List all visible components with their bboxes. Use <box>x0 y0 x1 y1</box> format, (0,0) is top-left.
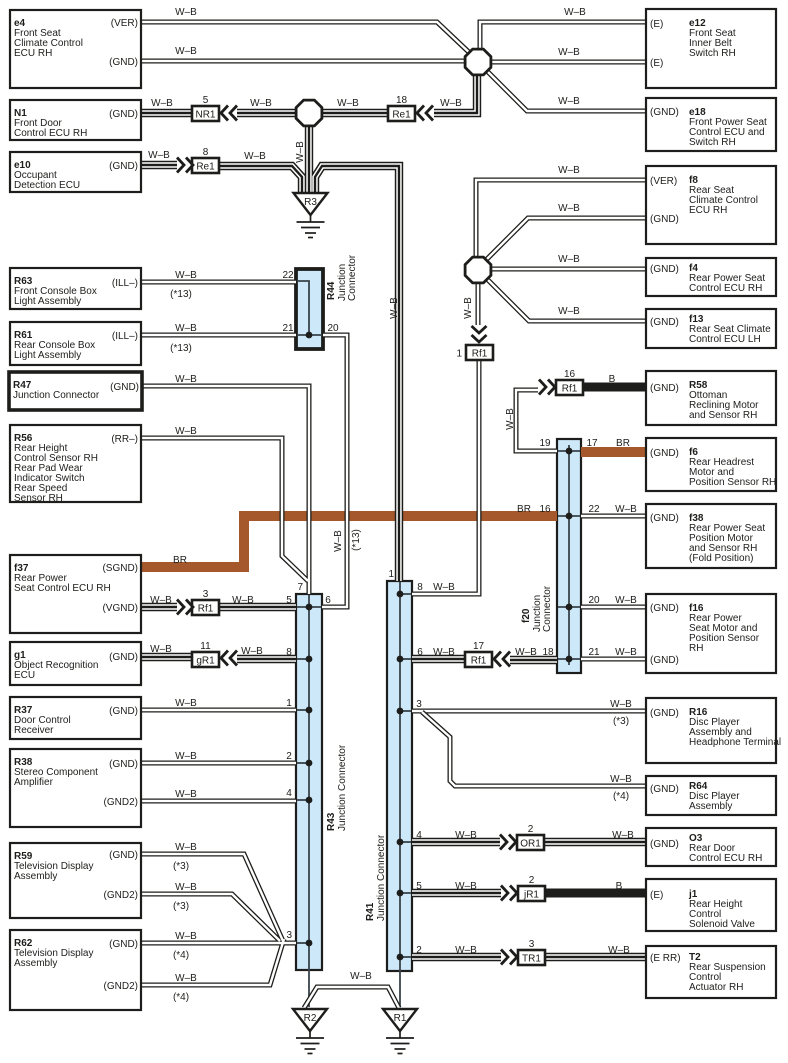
svg-text:(ILL–): (ILL–) <box>112 331 138 342</box>
svg-text:(GND): (GND) <box>110 382 139 393</box>
wire W-B g1 GND to gR1 <box>141 653 192 661</box>
svg-text:(*13): (*13) <box>170 289 192 300</box>
arrows into TR1 <box>501 950 517 965</box>
svg-text:W–B: W–B <box>150 644 172 655</box>
arrows into OR1 <box>500 835 516 850</box>
wire BR f20 pin 17 to f6 <box>581 447 646 457</box>
svg-text:5: 5 <box>416 881 422 892</box>
wire W-B f37 VGND to Rf1(3) <box>141 603 177 611</box>
svg-text:R44: R44 <box>326 281 337 300</box>
wire W-B octagon B to f13 GND <box>481 273 646 321</box>
ground R1 <box>383 1009 417 1054</box>
svg-text:W–B: W–B <box>175 270 197 281</box>
svg-text:B: B <box>609 374 616 385</box>
svg-text:W–B: W–B <box>175 882 197 893</box>
wire W-B octagon A to e12 upper E <box>480 22 646 55</box>
svg-text:Receiver: Receiver <box>14 725 54 736</box>
node R41 pin 6 junction <box>397 656 404 663</box>
wire W-B octagon C / Re1(8) / R41 pin 1 to ground R3 <box>219 110 399 581</box>
R44 internal bus <box>297 281 322 335</box>
wire W-B R41 pin 2 to TR1 <box>412 953 501 961</box>
svg-text:f20: f20 <box>521 608 532 623</box>
svg-text:Headphone Terminal: Headphone Terminal <box>689 737 781 748</box>
svg-text:(*13): (*13) <box>170 343 192 354</box>
svg-text:W–B: W–B <box>610 774 632 785</box>
svg-text:Rf1: Rf1 <box>472 349 488 360</box>
shield box gR1 pin 11 <box>192 641 219 667</box>
motor f16 Rear Power Seat Motor and Position Sensor RH <box>646 594 776 673</box>
svg-text:3: 3 <box>286 930 292 941</box>
svg-text:(VER): (VER) <box>111 18 138 29</box>
svg-text:(GND2): (GND2) <box>104 797 138 808</box>
wire W-B octagon A to e18 GND <box>480 64 646 111</box>
svg-text:W–B: W–B <box>175 323 197 334</box>
node R43 pin 3 junction <box>306 940 313 947</box>
wire W-B R41 pin 3 to R16 GND <box>412 709 646 714</box>
svg-text:(E): (E) <box>650 19 663 30</box>
svg-text:(GND): (GND) <box>650 655 679 666</box>
arrows into NR1 <box>221 106 237 121</box>
svg-text:(GND): (GND) <box>650 214 679 225</box>
svg-text:2: 2 <box>416 945 422 956</box>
shield box Re1 pin 18 <box>388 95 415 121</box>
svg-text:W–B: W–B <box>148 150 170 161</box>
wire W-B f20 pin 22 to f38 GND <box>581 514 646 519</box>
svg-text:(GND): (GND) <box>650 513 679 524</box>
label R43 junction connector <box>326 744 348 831</box>
label f20 junction connector <box>521 585 553 632</box>
label R44 junction connector <box>326 254 358 301</box>
svg-text:W–B: W–B <box>175 751 197 762</box>
ECU e18 Front Power Seat Control ECU and Switch RH <box>646 98 776 151</box>
svg-text:W–B: W–B <box>151 98 173 109</box>
svg-text:(GND): (GND) <box>650 317 679 328</box>
svg-text:4: 4 <box>286 788 292 799</box>
wire W-B R41 pin 5 to jR1 <box>412 889 501 897</box>
ground R3 <box>294 193 328 238</box>
svg-text:20: 20 <box>588 595 600 606</box>
svg-text:(*4): (*4) <box>173 992 189 1003</box>
component R38 Stereo Component Amplifier <box>10 749 141 827</box>
svg-text:(GND): (GND) <box>650 708 679 719</box>
svg-text:ECU: ECU <box>14 670 35 681</box>
motor R58 Ottoman Reclining Motor and Sensor RH <box>646 371 776 425</box>
svg-text:(GND2): (GND2) <box>104 890 138 901</box>
svg-text:(E): (E) <box>650 890 663 901</box>
motor f38 Rear Power Seat Position Motor and Sensor RH <box>646 504 776 568</box>
svg-text:3: 3 <box>203 589 209 600</box>
svg-text:Position Sensor RH: Position Sensor RH <box>689 477 776 488</box>
ECU g1 Object Recognition ECU <box>10 642 141 685</box>
switch e12 Front Seat Inner Belt Switch RH <box>646 9 776 88</box>
svg-text:Re1: Re1 <box>196 162 215 173</box>
sensor R56 <box>10 425 141 504</box>
svg-text:ECU RH: ECU RH <box>689 205 727 216</box>
svg-text:6: 6 <box>325 595 331 606</box>
node f20 pin 16/22 junction <box>566 513 573 520</box>
svg-text:R3: R3 <box>304 197 317 208</box>
arrows into Rf1(16) <box>539 380 555 395</box>
svg-text:W–B: W–B <box>232 595 254 606</box>
node R43 pin 1 junction <box>306 707 313 714</box>
wire W-B TR1 to T2 E RR <box>545 953 646 961</box>
svg-text:Junction Connector: Junction Connector <box>337 744 348 831</box>
motor f6 Rear Headrest Motor and Position Sensor RH <box>646 438 776 491</box>
svg-text:Rf1: Rf1 <box>198 604 214 615</box>
component R64 Disc Player Assembly <box>646 776 776 815</box>
wire W-B OR1 to O3 GND <box>544 838 646 846</box>
arrows into Rf1(3) <box>177 600 193 615</box>
svg-text:R41: R41 <box>365 902 376 921</box>
wire W-B Rf1(3) to R43 pin 5 <box>219 603 296 611</box>
svg-text:20: 20 <box>327 323 339 334</box>
svg-text:W–B: W–B <box>615 504 637 515</box>
node R43 pin 5/6/7 junction <box>306 604 313 611</box>
node f20 pin 20 junction <box>566 604 573 611</box>
svg-text:W–B: W–B <box>558 254 580 265</box>
svg-text:BR: BR <box>173 555 187 566</box>
svg-text:18: 18 <box>396 95 408 106</box>
svg-text:22: 22 <box>588 504 600 515</box>
wire W-B R37 GND to R43 pin 1 <box>141 708 296 713</box>
svg-text:Rf1: Rf1 <box>471 656 487 667</box>
svg-text:(VER): (VER) <box>650 176 677 187</box>
shield box Rf1 pin 17 <box>465 641 492 667</box>
svg-text:Assembly: Assembly <box>689 801 732 812</box>
junction node octagon A <box>465 49 491 75</box>
wire W-B octagon C to Re1(18) <box>309 109 388 117</box>
wire W-B R44 pin 20 to R43 pin 6 <box>322 335 347 607</box>
svg-text:W–B: W–B <box>175 789 197 800</box>
svg-text:Switch RH: Switch RH <box>689 137 736 148</box>
wire W-B octagon B to f8 GND <box>481 218 646 265</box>
junction connector R43 <box>296 594 322 970</box>
ECU e4 Front Seat Climate Control ECU RH <box>10 10 141 88</box>
svg-text:Connector: Connector <box>347 254 358 301</box>
ECU O3 Rear Door Control ECU RH <box>646 828 776 866</box>
svg-text:(GND): (GND) <box>109 109 138 120</box>
svg-text:16: 16 <box>564 369 576 380</box>
svg-text:NR1: NR1 <box>195 110 215 121</box>
svg-text:17: 17 <box>473 641 485 652</box>
svg-text:TR1: TR1 <box>522 954 541 965</box>
svg-text:W–B: W–B <box>175 46 197 57</box>
svg-text:Junction Connector: Junction Connector <box>376 834 387 921</box>
svg-text:(GND): (GND) <box>650 448 679 459</box>
svg-text:Connector: Connector <box>542 585 553 632</box>
ECU e10 Occupant Detection ECU <box>10 152 141 192</box>
svg-text:2: 2 <box>529 875 535 886</box>
wires W-B R59/R62 to R43 pin 3 <box>141 854 296 985</box>
svg-text:1: 1 <box>456 349 462 360</box>
svg-text:21: 21 <box>588 647 600 658</box>
actuator T2 Rear Suspension Control Actuator RH <box>646 946 776 998</box>
svg-text:(*3): (*3) <box>173 901 189 912</box>
svg-text:W–B: W–B <box>175 7 197 18</box>
node R44 pin 21/20 junction <box>306 332 313 339</box>
svg-text:21: 21 <box>282 323 294 334</box>
junction connector R47 <box>9 372 142 410</box>
svg-text:W–B: W–B <box>463 297 474 319</box>
svg-text:R43: R43 <box>326 812 337 831</box>
svg-text:5: 5 <box>286 595 292 606</box>
wire W-B NR1 to octagon C <box>237 109 309 117</box>
svg-text:(GND): (GND) <box>109 161 138 172</box>
svg-text:(GND): (GND) <box>109 850 138 861</box>
svg-text:W–B: W–B <box>558 203 580 214</box>
R43 internal bus <box>297 595 321 1007</box>
wire W-B R61 ILL- to R44 pin 21 <box>141 333 296 338</box>
wire W-B e4 VER to junction octagon A <box>141 22 474 57</box>
svg-text:(*4): (*4) <box>173 950 189 961</box>
svg-text:(*13): (*13) <box>351 529 362 551</box>
wire W-B gR1 to R43 pin 8 <box>237 655 296 663</box>
svg-text:R2: R2 <box>304 1013 317 1024</box>
svg-text:(GND): (GND) <box>109 57 138 68</box>
svg-text:Control ECU RH: Control ECU RH <box>689 283 762 294</box>
wire W-B R63 ILL- to R44 pin 22 <box>141 280 296 285</box>
svg-text:Light Assembly: Light Assembly <box>14 350 81 361</box>
shield box TR1 pin 3 <box>518 939 545 965</box>
wire W-B N1 GND to NR1 <box>141 109 192 117</box>
junction connector R41 <box>387 581 412 971</box>
svg-text:(GND): (GND) <box>109 939 138 950</box>
svg-text:(Fold Position): (Fold Position) <box>689 553 753 564</box>
arrows into Rf1(1) <box>472 326 487 342</box>
svg-text:Control ECU RH: Control ECU RH <box>14 128 87 139</box>
wire W-B R38 GND to R43 pin 2 <box>141 761 296 766</box>
svg-text:1: 1 <box>388 569 394 580</box>
wire W-B e4 GND to junction octagon A <box>141 59 474 64</box>
svg-text:RH: RH <box>689 643 703 654</box>
svg-text:(*3): (*3) <box>173 861 189 872</box>
svg-text:W–B: W–B <box>564 7 586 18</box>
svg-text:W–B: W–B <box>455 830 477 841</box>
svg-text:W–B: W–B <box>440 98 462 109</box>
wire W-B Rf1(17) to f20 pin 18 <box>510 656 557 664</box>
node R43 pin 4 junction <box>306 797 313 804</box>
node R41 pin 2 junction <box>397 954 404 961</box>
ECU N1 Front Door Control ECU RH <box>10 100 141 140</box>
wire W-B f20 pin 19 to arrows at Rf1(16) <box>516 390 557 451</box>
svg-text:Rf1: Rf1 <box>562 384 578 395</box>
arrows into Re1(18) <box>417 106 433 121</box>
svg-text:W–B: W–B <box>250 98 272 109</box>
svg-text:W–B: W–B <box>175 426 197 437</box>
svg-text:(GND): (GND) <box>650 264 679 275</box>
svg-text:7: 7 <box>297 582 303 593</box>
svg-text:W–B: W–B <box>175 842 197 853</box>
svg-text:W–B: W–B <box>337 98 359 109</box>
wire B Rf1(16) to R58 <box>583 383 646 392</box>
svg-text:16: 16 <box>539 504 551 515</box>
svg-text:Switch RH: Switch RH <box>689 48 736 59</box>
svg-text:(*3): (*3) <box>613 716 629 727</box>
node f20 pin 18/21 junction <box>566 656 573 663</box>
svg-text:(GND): (GND) <box>650 784 679 795</box>
junction connector R44 <box>296 269 323 349</box>
ground R2 <box>293 1009 327 1054</box>
wire W-B R38 GND2 to R43 pin 4 <box>141 799 296 804</box>
wire BR f37 SGND to f20 pin 16 <box>141 516 557 567</box>
svg-text:W–B: W–B <box>505 408 516 430</box>
svg-text:Amplifier: Amplifier <box>14 777 54 788</box>
svg-text:Control ECU LH: Control ECU LH <box>689 334 761 345</box>
svg-text:and Sensor RH: and Sensor RH <box>689 410 757 421</box>
svg-text:W–B: W–B <box>558 165 580 176</box>
wire W-B e10 GND to Re1(8) <box>141 161 177 169</box>
wire W-B ground bus R2 to R1 <box>304 987 399 1008</box>
arrows into gR1 <box>221 651 237 666</box>
svg-text:W–B: W–B <box>175 931 197 942</box>
svg-text:(E RR): (E RR) <box>650 953 681 964</box>
arrows into Rf1(17) <box>494 652 510 667</box>
svg-text:Control ECU RH: Control ECU RH <box>689 853 762 864</box>
svg-text:19: 19 <box>539 438 551 449</box>
shield box OR1 pin 2 <box>517 824 544 850</box>
ECU f13 Rear Seat Climate Control ECU LH <box>646 309 776 348</box>
svg-text:17: 17 <box>586 438 598 449</box>
wire W-B f20 pin 21 to f16 GND2 <box>581 657 646 662</box>
svg-text:W–B: W–B <box>558 96 580 107</box>
svg-text:W–B: W–B <box>610 699 632 710</box>
svg-text:(RR–): (RR–) <box>111 434 138 445</box>
svg-text:3: 3 <box>529 939 535 950</box>
svg-text:22: 22 <box>282 270 294 281</box>
wire W-B branch to R64 GND <box>422 712 646 786</box>
f20 internal bus <box>558 445 580 665</box>
svg-text:Seat Control ECU RH: Seat Control ECU RH <box>14 583 111 594</box>
node R41 pin 3 junction <box>397 708 404 715</box>
svg-text:(VGND): (VGND) <box>102 603 138 614</box>
component R59 Television Display Assembly <box>10 843 141 918</box>
svg-text:W–B: W–B <box>615 647 637 658</box>
R41 internal bus <box>400 582 411 1007</box>
wire W-B Re1(18) to octagon A <box>434 74 477 113</box>
svg-text:W–B: W–B <box>515 647 537 658</box>
svg-text:(GND): (GND) <box>650 839 679 850</box>
svg-text:(E): (E) <box>650 58 663 69</box>
svg-text:W–B: W–B <box>244 151 266 162</box>
shield box Re1 pin 8 <box>192 147 219 173</box>
svg-text:Junction Connector: Junction Connector <box>13 390 100 401</box>
svg-text:(GND): (GND) <box>650 603 679 614</box>
component R62 Television Display Assembly <box>10 930 141 1010</box>
svg-text:(*4): (*4) <box>613 791 629 802</box>
node R41 pin 8 junction <box>397 591 404 598</box>
wire W-B octagon A to e12 lower E <box>478 60 646 65</box>
component R37 Door Control Receiver <box>10 697 141 739</box>
svg-text:5: 5 <box>203 95 209 106</box>
junction node octagon B <box>465 257 491 283</box>
shield box jR1 pin 2 <box>518 875 545 901</box>
svg-text:Assembly: Assembly <box>14 871 57 882</box>
svg-text:W–B: W–B <box>295 141 306 163</box>
svg-text:2: 2 <box>286 751 292 762</box>
svg-text:OR1: OR1 <box>520 839 541 850</box>
svg-text:W–B: W–B <box>615 595 637 606</box>
svg-text:(GND2): (GND2) <box>104 981 138 992</box>
svg-text:ECU RH: ECU RH <box>14 48 52 59</box>
wire W-B R41 pin 4 to OR1 <box>412 838 500 846</box>
svg-text:6: 6 <box>417 647 423 658</box>
svg-text:W–B: W–B <box>175 374 197 385</box>
component R61 Rear Console Box Light Assembly <box>10 322 141 365</box>
svg-text:gR1: gR1 <box>196 656 215 667</box>
ECU f4 Rear Power Seat Control ECU RH <box>646 258 776 296</box>
svg-text:W–B: W–B <box>433 647 455 658</box>
component R16 Disc Player Assembly and Headphone Terminal <box>646 698 781 763</box>
svg-text:W–B: W–B <box>612 830 634 841</box>
junction node octagon C <box>296 100 322 126</box>
node f20 pin 19/17 junction <box>566 448 573 455</box>
svg-text:W–B: W–B <box>350 971 372 982</box>
svg-text:W–B: W–B <box>241 646 263 657</box>
svg-text:2: 2 <box>528 824 534 835</box>
svg-text:W–B: W–B <box>175 698 197 709</box>
svg-text:W–B: W–B <box>558 47 580 58</box>
svg-text:Actuator RH: Actuator RH <box>689 982 743 993</box>
svg-text:BR: BR <box>616 438 630 449</box>
wire W-B f20 pin 20 to f16 GND <box>581 605 646 610</box>
svg-text:W–B: W–B <box>433 582 455 593</box>
svg-text:11: 11 <box>200 641 211 652</box>
node R41 pin 4 junction <box>397 839 404 846</box>
wire W-B Rf1(1) down to R41 pin 8 <box>412 361 479 594</box>
svg-text:8: 8 <box>286 647 292 658</box>
svg-text:BR: BR <box>517 504 531 515</box>
ECU f8 Rear Seat Climate Control ECU RH <box>646 166 776 244</box>
svg-text:(GND): (GND) <box>109 706 138 717</box>
junction connector f20 <box>557 439 581 673</box>
svg-text:W–B: W–B <box>389 297 400 319</box>
svg-text:(GND): (GND) <box>650 383 679 394</box>
valve j1 Rear Height Control Solenoid Valve <box>646 879 776 931</box>
component R63 Front Console Box Light Assembly <box>10 268 141 309</box>
ECU f37 Rear Power Seat Control ECU RH <box>10 555 141 633</box>
wire B jR1 to j1 <box>545 889 646 898</box>
svg-text:(ILL–): (ILL–) <box>112 278 138 289</box>
node R43 pin 2 junction <box>306 760 313 767</box>
svg-text:W–B: W–B <box>333 530 344 552</box>
svg-text:W–B: W–B <box>175 973 197 984</box>
svg-text:Sensor RH: Sensor RH <box>14 493 63 504</box>
wire W-B R47 GND and R56 RR- to R43 pin 7 <box>141 386 309 594</box>
wire W-B octagon B down to arrows at Rf1(1) <box>476 284 481 325</box>
shield box Rf1 pin 16 <box>556 369 583 395</box>
node R43 pin 8 junction <box>306 656 313 663</box>
svg-text:8: 8 <box>203 147 209 158</box>
svg-text:W–B: W–B <box>455 945 477 956</box>
svg-text:8: 8 <box>417 582 423 593</box>
wire W-B octagon B to f4 GND <box>478 267 646 272</box>
svg-text:(GND): (GND) <box>109 652 138 663</box>
arrows into jR1 <box>501 886 517 901</box>
shield box Rf1 pin 3 <box>192 589 219 615</box>
svg-text:jR1: jR1 <box>523 890 539 901</box>
arrows into Re1(8) <box>177 158 193 173</box>
svg-text:Light Assembly: Light Assembly <box>14 296 81 307</box>
svg-text:18: 18 <box>542 647 554 658</box>
label R41 junction connector <box>365 834 387 921</box>
node R41 pin 5 junction <box>397 890 404 897</box>
svg-text:3: 3 <box>416 699 422 710</box>
svg-text:Re1: Re1 <box>392 110 411 121</box>
svg-text:(SGND): (SGND) <box>102 563 138 574</box>
svg-text:Detection ECU: Detection ECU <box>14 180 80 191</box>
svg-text:Solenoid Valve: Solenoid Valve <box>689 919 755 930</box>
svg-text:W–B: W–B <box>558 306 580 317</box>
